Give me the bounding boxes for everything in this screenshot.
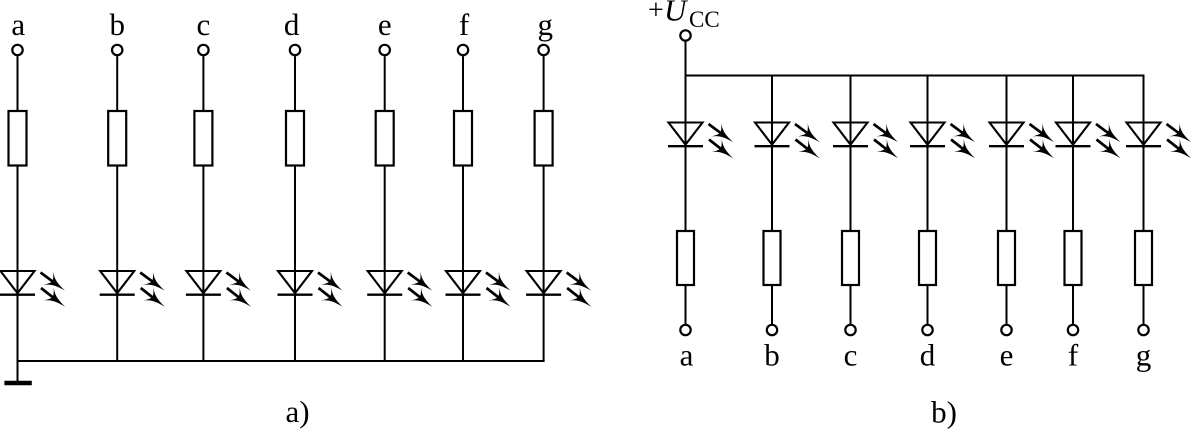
- svg-text:a: a: [680, 338, 694, 373]
- svg-text:e: e: [378, 7, 392, 42]
- svg-text:b: b: [109, 7, 125, 42]
- svg-text:+: +: [648, 0, 664, 26]
- svg-text:a: a: [11, 7, 25, 42]
- svg-text:c: c: [197, 7, 211, 42]
- svg-text:d: d: [284, 7, 300, 42]
- svg-text:g: g: [537, 7, 553, 42]
- svg-text:e: e: [1000, 338, 1014, 373]
- svg-text:a): a): [285, 394, 309, 429]
- svg-text:c: c: [844, 338, 858, 373]
- svg-text:U: U: [664, 0, 689, 28]
- svg-text:g: g: [1136, 338, 1152, 373]
- svg-text:CC: CC: [689, 7, 720, 32]
- svg-text:f: f: [1068, 338, 1079, 373]
- svg-text:b): b): [931, 395, 957, 429]
- svg-text:d: d: [920, 338, 936, 373]
- svg-text:b: b: [764, 338, 780, 373]
- svg-text:f: f: [459, 7, 470, 42]
